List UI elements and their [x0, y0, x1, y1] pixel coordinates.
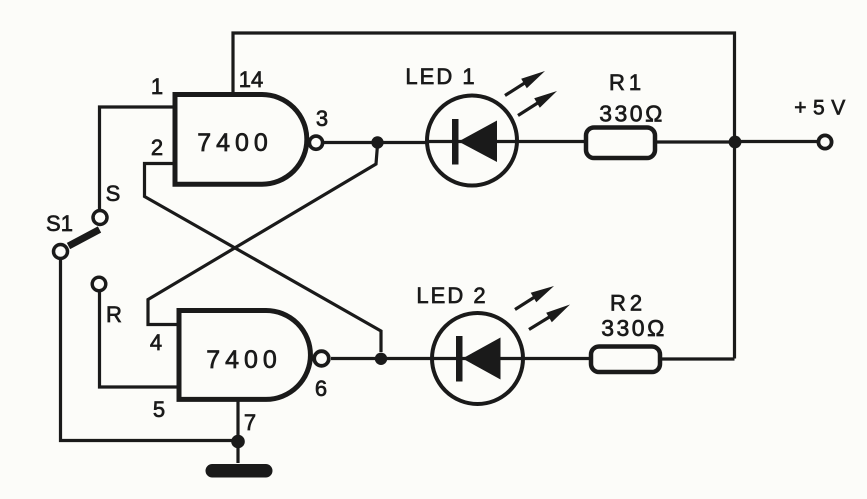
wire Vcc top rail from pin 14 to +5V bus: [233, 33, 735, 359]
svg-text:R: R: [106, 302, 122, 327]
NAND gate U1b 7400 outline: [179, 311, 310, 400]
node junction +5V bus R1: [729, 136, 742, 149]
svg-text:7400: 7400: [197, 129, 273, 157]
switch S1 contact R circle: [92, 277, 106, 291]
svg-text:6: 6: [315, 376, 327, 401]
switch S1 contact S circle: [93, 211, 107, 225]
ground: [206, 464, 273, 478]
LED D1 circle: [427, 96, 517, 186]
wire junction to ground symbol: [236, 441, 239, 463]
svg-text:3: 3: [316, 106, 328, 131]
resistor R2 body: [591, 347, 660, 373]
svg-text:LED 1: LED 1: [405, 64, 476, 89]
svg-text:330Ω: 330Ω: [601, 315, 667, 341]
svg-text:LED 2: LED 2: [416, 283, 487, 308]
LED D1 light arrow lower: [518, 91, 557, 116]
wire through LED 2 to resistor R2: [432, 357, 591, 360]
svg-text:330Ω: 330Ω: [599, 101, 665, 127]
LED D1 triangle: [459, 121, 498, 163]
node ground junction: [231, 435, 245, 449]
terminal +5V circle: [818, 135, 831, 148]
wire cross-coupling gate 1 output to pin 4: [148, 145, 378, 325]
wire through LED 1 to resistor R1: [428, 140, 587, 143]
wire gate 2 output to LED 2: [331, 357, 432, 360]
pin bubble gate 1 output: [309, 136, 322, 149]
LED D1 cathode bar: [452, 119, 459, 165]
node junction gate 1 output: [371, 136, 383, 148]
wire R2 to +5V bus: [660, 357, 735, 360]
LED D2 circle: [432, 313, 523, 404]
wire pin 1 to S contact: [100, 107, 176, 209]
switch S1 pole circle: [54, 245, 68, 259]
LED D2 light arrow lower: [529, 305, 570, 330]
LED D2 light arrow upper: [515, 286, 554, 310]
svg-text:7: 7: [244, 410, 256, 435]
LED D1 light arrow upper: [505, 71, 545, 96]
svg-text:S1: S1: [46, 211, 73, 236]
svg-text:4: 4: [150, 330, 162, 355]
svg-text:R2: R2: [610, 291, 646, 316]
resistor R1 body: [586, 128, 655, 159]
switch S1 lever arm: [69, 230, 100, 247]
NAND gate U1a 7400 outline: [175, 95, 307, 185]
wire R1 to +5V bus: [655, 140, 735, 143]
wire pin 5 to R contact: [100, 291, 180, 388]
svg-text:2: 2: [151, 135, 163, 160]
svg-text:14: 14: [239, 67, 263, 92]
node junction gate 2 output: [375, 353, 387, 365]
LED D2 triangle: [463, 338, 501, 380]
svg-text:7400: 7400: [206, 346, 282, 374]
wire switch pole to ground rail: [61, 259, 239, 441]
svg-text:S: S: [106, 181, 121, 206]
svg-text:5: 5: [153, 397, 165, 422]
wire +5V junction to terminal: [735, 140, 817, 143]
svg-text:+5V: +5V: [794, 97, 851, 120]
LED D2 cathode bar: [456, 336, 463, 382]
wire pin 2 cross-coupling from gate 2 output: [145, 164, 382, 353]
wire gate 1 output to LED 1: [323, 141, 428, 144]
wire pin 7 to ground junction: [236, 400, 239, 442]
pin bubble gate 2 output: [314, 351, 329, 366]
svg-text:1: 1: [151, 74, 163, 99]
svg-text:R1: R1: [609, 70, 645, 95]
